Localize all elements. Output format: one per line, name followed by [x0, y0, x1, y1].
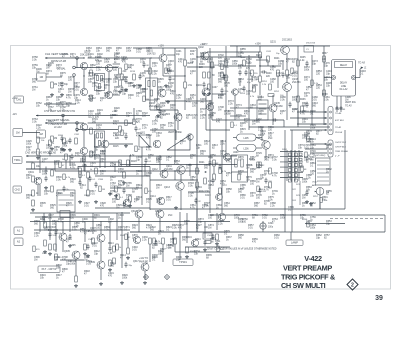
- svg-text:Q311: Q311: [131, 210, 137, 213]
- capacitor C301: [44, 176, 47, 182]
- resistor R314: [113, 246, 116, 252]
- label D768 value: [60, 106, 66, 112]
- label R576 value: [306, 130, 312, 136]
- label Q235: [274, 102, 283, 108]
- resistor R648: [301, 166, 307, 172]
- label: [214, 65, 220, 67]
- svg-text:33p: 33p: [198, 221, 203, 224]
- label R781 value: [168, 122, 174, 128]
- transistor Q123: [101, 140, 109, 148]
- svg-text:Q313: Q313: [155, 210, 162, 213]
- transistor Q313: [156, 210, 164, 218]
- svg-text:0.01: 0.01: [113, 93, 118, 96]
- label R797 value: [204, 202, 210, 208]
- transistor Q208: [187, 134, 193, 140]
- svg-text:TRIG: TRIG: [14, 158, 20, 162]
- svg-text:R235: R235: [300, 57, 306, 59]
- arrow: [205, 171, 207, 173]
- label cluster: [176, 51, 196, 56]
- capacitor C205: [166, 68, 172, 71]
- label C464 value: [252, 76, 258, 82]
- wire: [205, 96, 207, 130]
- resistor R304: [32, 200, 35, 206]
- svg-text:LF ADJ: LF ADJ: [54, 126, 62, 129]
- note: [207, 248, 277, 251]
- label R434 value: [140, 58, 146, 64]
- resistor R351: [115, 186, 118, 192]
- capacitor C209: [138, 74, 141, 80]
- svg-text:100k: 100k: [44, 229, 50, 232]
- svg-text:Q213: Q213: [164, 186, 171, 189]
- svg-text:100: 100: [113, 69, 118, 72]
- label R873 value: [198, 218, 204, 224]
- wire: [99, 155, 100, 168]
- label C559 value: [202, 204, 208, 210]
- label Q309: [89, 261, 96, 264]
- svg-text:0.01: 0.01: [84, 205, 89, 208]
- svg-text:220: 220: [54, 259, 59, 262]
- svg-text:Q305: Q305: [64, 250, 71, 253]
- label R425 value: [113, 132, 119, 138]
- label C841 value: [58, 88, 64, 94]
- svg-text:3.3k: 3.3k: [152, 123, 157, 126]
- svg-text:560: 560: [238, 191, 243, 194]
- wire: [116, 213, 118, 240]
- node: [272, 65, 273, 66]
- wire: [259, 58, 261, 76]
- label C699 value: [186, 98, 192, 104]
- label C428 value: [90, 151, 96, 157]
- svg-text:470: 470: [252, 241, 257, 244]
- label R819 value: [52, 220, 58, 226]
- wire: [100, 242, 102, 261]
- label R639 value: [176, 256, 182, 262]
- svg-text:C343: C343: [207, 235, 213, 237]
- label R448 value: [218, 94, 224, 100]
- label C497 value: [42, 158, 48, 164]
- pot R122: [37, 130, 46, 138]
- connector P2: [13, 186, 22, 193]
- svg-text:2.2k: 2.2k: [176, 97, 181, 100]
- svg-text:0.01: 0.01: [54, 163, 59, 166]
- svg-text:4.7k: 4.7k: [300, 113, 305, 116]
- label R886 value: [106, 78, 112, 84]
- svg-text:CH2: CH2: [15, 187, 21, 191]
- bus vertical: [174, 48, 176, 163]
- svg-text:1M: 1M: [102, 189, 105, 191]
- label C439 value: [190, 58, 196, 64]
- svg-text:100k: 100k: [104, 61, 110, 64]
- transistor Q216: [223, 153, 230, 160]
- connector: [340, 107, 342, 109]
- resistor R321: [149, 238, 152, 244]
- svg-text:2SC1815: 2SC1815: [306, 43, 316, 45]
- label Q311: [131, 210, 137, 213]
- wire: [177, 110, 179, 113]
- svg-text:R338: R338: [84, 195, 90, 197]
- svg-text:2SC460: 2SC460: [164, 168, 173, 171]
- svg-text:470: 470: [154, 101, 159, 104]
- svg-text:R314: R314: [108, 243, 114, 245]
- label R878 value: [238, 170, 244, 176]
- label D470 value: [292, 58, 298, 64]
- label C418 value: [88, 110, 94, 116]
- resistor R445: [221, 72, 227, 78]
- svg-text:33p: 33p: [316, 237, 321, 240]
- resistor R348: [216, 234, 219, 240]
- label D557 value: [226, 172, 232, 178]
- wire: [290, 129, 327, 131]
- label R423 value: [113, 120, 119, 126]
- switch triangle S201: [167, 132, 190, 150]
- svg-text:R231: R231: [256, 55, 262, 57]
- node: [108, 94, 109, 95]
- capacitor R447: [220, 88, 229, 94]
- label D736 value: [264, 200, 270, 206]
- capacitor R716: [222, 74, 229, 80]
- label C476 value: [324, 62, 330, 68]
- capacitor R615: [124, 262, 132, 268]
- label R415 value: [60, 101, 66, 107]
- svg-text:L205: L205: [243, 138, 249, 140]
- label D764 value: [46, 102, 52, 108]
- label R812 value: [204, 140, 210, 146]
- label Q203: [149, 102, 160, 108]
- svg-text:1M: 1M: [146, 99, 149, 101]
- label C769 value: [136, 110, 142, 116]
- capacitor C237: [261, 70, 267, 73]
- wire: [251, 76, 253, 82]
- label R490 value: [310, 110, 316, 116]
- box S301 switch: [57, 190, 75, 212]
- ground: [62, 148, 66, 151]
- svg-text:R253: R253: [240, 93, 246, 95]
- wire: [175, 251, 230, 253]
- ground: [138, 84, 142, 87]
- label R734 value: [264, 186, 270, 192]
- wire: [55, 222, 57, 253]
- label C527 value: [84, 202, 90, 208]
- resistor R347: [186, 247, 189, 253]
- svg-text:2SC1815: 2SC1815: [48, 229, 59, 232]
- transistor Q207: [153, 140, 161, 148]
- label Q204: [196, 85, 202, 87]
- label R802 value: [56, 264, 62, 270]
- label R830 value: [96, 86, 102, 92]
- svg-text:220: 220: [142, 115, 147, 118]
- svg-text:470: 470: [128, 67, 133, 70]
- label R810 value: [180, 140, 186, 146]
- wire: [189, 164, 190, 176]
- label D438 value: [168, 82, 174, 88]
- label D522 value: [110, 176, 116, 182]
- svg-text:560: 560: [32, 81, 37, 84]
- svg-text:Q317: Q317: [133, 261, 139, 263]
- svg-text:560: 560: [312, 105, 317, 108]
- wire: [23, 132, 41, 134]
- label R485 value: [258, 110, 264, 116]
- svg-text:2.2k: 2.2k: [34, 235, 39, 238]
- capacitor C123: [124, 134, 127, 140]
- wire: [39, 162, 41, 173]
- label R842 value: [136, 84, 142, 90]
- svg-text:4.7k: 4.7k: [113, 135, 118, 138]
- svg-text:3.3k: 3.3k: [140, 75, 145, 78]
- svg-text:2SC1815: 2SC1815: [282, 39, 293, 42]
- label D427 value: [26, 146, 32, 152]
- resistor R323: [174, 238, 177, 244]
- connector P4: [14, 238, 23, 246]
- wire: [159, 218, 161, 232]
- svg-text:100: 100: [256, 197, 261, 200]
- resistor R210: [208, 72, 211, 78]
- label D685 value: [114, 74, 120, 80]
- label R486 value: [280, 96, 286, 102]
- svg-text:3.3k: 3.3k: [272, 159, 277, 162]
- svg-text:100k: 100k: [126, 50, 132, 53]
- pot R255 SCALE ILLUM: [315, 188, 324, 196]
- label: [257, 97, 263, 99]
- wire dashed: [330, 218, 383, 220]
- resistor R712: [221, 64, 230, 70]
- wire: [159, 155, 160, 170]
- label D607 value: [118, 226, 124, 232]
- resistor R322: [162, 238, 165, 244]
- svg-text:2.2k: 2.2k: [276, 75, 281, 78]
- wire: [239, 78, 241, 86]
- svg-text:R251: R251: [262, 81, 268, 83]
- svg-text:4.7k: 4.7k: [264, 189, 269, 192]
- connector box TP301: [173, 259, 193, 266]
- wire: [45, 57, 84, 59]
- wire: [187, 66, 215, 68]
- label C579 value: [298, 144, 304, 150]
- svg-text:470: 470: [108, 275, 113, 278]
- label Q317: [133, 261, 139, 263]
- label R550 value: [210, 154, 216, 160]
- capacitor R796: [194, 198, 201, 204]
- label C621 value: [66, 238, 72, 244]
- svg-text:560: 560: [254, 205, 259, 208]
- label R659 value: [252, 238, 258, 244]
- wire: [174, 170, 175, 180]
- label C481 value: [324, 96, 330, 102]
- ground: [83, 252, 87, 255]
- resistor R226: [213, 174, 216, 180]
- badge diamond 2: [347, 279, 358, 290]
- label C646 value: [302, 134, 308, 140]
- svg-text:0.01: 0.01: [264, 159, 269, 162]
- wire: [206, 129, 230, 131]
- label R624 value: [146, 224, 152, 230]
- label C749 value: [234, 214, 240, 220]
- label C489 value: [300, 110, 306, 116]
- capacitor C715: [158, 109, 165, 115]
- label R417 value: [96, 66, 102, 72]
- wire: [35, 216, 110, 218]
- resistor R408: [121, 74, 129, 80]
- svg-text:560: 560: [70, 181, 75, 184]
- label C553 value: [208, 184, 214, 190]
- label D429 value: [100, 150, 106, 156]
- wire: [261, 127, 263, 141]
- label D653 value: [326, 220, 332, 226]
- resistor D513: [79, 172, 86, 178]
- wire: [162, 48, 164, 54]
- label C856 value: [232, 60, 238, 66]
- node: [184, 75, 185, 76]
- label C880 value: [238, 188, 244, 194]
- label C738 value: [272, 172, 278, 178]
- label C640 value: [132, 246, 138, 252]
- label D818 value: [42, 216, 48, 222]
- label Q305: [64, 250, 71, 253]
- svg-text:R334: R334: [58, 135, 64, 137]
- label R675 value: [60, 72, 66, 78]
- wire: [290, 150, 292, 181]
- delay line DL1 box: [332, 60, 356, 97]
- label R867 value: [80, 228, 86, 234]
- svg-text:100: 100: [96, 227, 101, 230]
- ground: [128, 204, 132, 207]
- label R735 value: [256, 194, 262, 200]
- svg-text:33p: 33p: [66, 105, 71, 108]
- label D721 value: [126, 112, 132, 118]
- svg-text:2SA733: 2SA733: [292, 81, 301, 84]
- arrow: [325, 117, 327, 119]
- capacitor C331: [48, 150, 51, 156]
- resistor R203: [144, 68, 151, 74]
- label C453 value: [155, 116, 161, 122]
- svg-text:470: 470: [244, 113, 249, 116]
- resistor R338: [87, 190, 90, 196]
- ground: [174, 206, 178, 209]
- label R539 value: [136, 170, 142, 176]
- wire: [246, 107, 269, 109]
- label Q307: [88, 227, 97, 233]
- svg-text:C241: C241: [266, 51, 272, 53]
- svg-text:0.01: 0.01: [166, 199, 171, 202]
- label R657 value: [248, 224, 254, 230]
- label R843 value: [142, 88, 148, 94]
- label D519 value: [100, 170, 106, 176]
- resistor R239: [268, 94, 274, 97]
- wire: [196, 221, 198, 232]
- svg-text:2.2k: 2.2k: [152, 65, 157, 68]
- wire: [272, 95, 274, 104]
- svg-text:4.7k: 4.7k: [66, 97, 71, 100]
- resistor R580: [305, 152, 311, 158]
- transistor Q235: [269, 104, 277, 112]
- transistor Q319: [191, 239, 198, 246]
- label R517 value: [90, 190, 96, 196]
- resistor R112: [119, 80, 122, 86]
- transistor Q202: [201, 52, 209, 60]
- label C597 value: [48, 214, 54, 220]
- label R532 value: [146, 134, 152, 140]
- label R413 value: [100, 97, 106, 103]
- label D667 value: [126, 47, 132, 53]
- label C606 value: [84, 230, 90, 236]
- node CH1 VERT SIGNAL input: [45, 52, 69, 63]
- wire: [109, 222, 111, 247]
- transistor Q301: [34, 177, 42, 185]
- label R451 value: [190, 94, 196, 100]
- label R637 value: [226, 236, 232, 242]
- diode matrix cells: [288, 153, 302, 182]
- label cluster: [95, 110, 118, 119]
- label R845 value: [158, 78, 164, 84]
- resistor R341: [49, 244, 52, 250]
- resistor R711: [165, 68, 173, 74]
- svg-text:+12V TO: +12V TO: [139, 258, 148, 260]
- label D613 value: [110, 262, 116, 268]
- svg-text:2.2k: 2.2k: [168, 125, 173, 128]
- ground: [86, 254, 90, 257]
- svg-text:0.01: 0.01: [56, 67, 61, 70]
- resistor R608: [125, 234, 131, 240]
- resistor R254b: [301, 106, 304, 112]
- svg-text:100k: 100k: [280, 217, 286, 220]
- label Q211: [164, 165, 173, 171]
- svg-text:100: 100: [112, 201, 117, 204]
- label R617 value: [56, 274, 62, 280]
- svg-text:R207: R207: [190, 51, 196, 53]
- label D454 value: [186, 114, 192, 120]
- transistor Q317: [141, 263, 149, 271]
- svg-text:LAMP: LAMP: [291, 241, 298, 245]
- resistor R345: [116, 244, 122, 250]
- wire: [43, 213, 45, 224]
- label R858 value: [54, 146, 60, 152]
- wire: [162, 244, 164, 262]
- wire: [230, 91, 233, 93]
- label D644 value: [302, 118, 308, 124]
- label D437 value: [166, 64, 172, 70]
- label R762 value: [36, 102, 42, 108]
- svg-text:2.2k: 2.2k: [96, 127, 101, 130]
- label DC BAL: [57, 68, 66, 71]
- label box PLT: [38, 266, 60, 273]
- label R593 value: [34, 220, 40, 226]
- svg-text:100: 100: [270, 81, 275, 84]
- svg-text:4.7k: 4.7k: [252, 79, 257, 82]
- svg-text:33p: 33p: [326, 223, 331, 226]
- svg-text:4.7k: 4.7k: [186, 101, 191, 104]
- label R811 value: [196, 144, 202, 150]
- label R672 value: [46, 64, 52, 70]
- label C496 value: [345, 96, 351, 102]
- svg-text:470: 470: [216, 121, 221, 124]
- label: [12, 114, 17, 116]
- wire: [210, 214, 385, 216]
- label R628 value: [208, 214, 214, 220]
- capacitor R772: [134, 126, 141, 132]
- svg-text:2 - F: 2 - F: [334, 156, 340, 158]
- label R885 value: [92, 82, 98, 88]
- svg-text:100u: 100u: [268, 227, 274, 229]
- svg-text:VERT PREAMP: VERT PREAMP: [283, 264, 332, 273]
- label C589 value: [288, 206, 294, 212]
- resistor R335: [75, 138, 78, 144]
- svg-text:220: 220: [96, 63, 101, 66]
- label D803 value: [152, 244, 158, 250]
- svg-text:2-102: 2-102: [202, 44, 208, 46]
- label R609 value: [54, 256, 60, 262]
- label C650 value: [310, 170, 316, 176]
- node: [259, 65, 260, 66]
- resistor R103: [51, 82, 58, 88]
